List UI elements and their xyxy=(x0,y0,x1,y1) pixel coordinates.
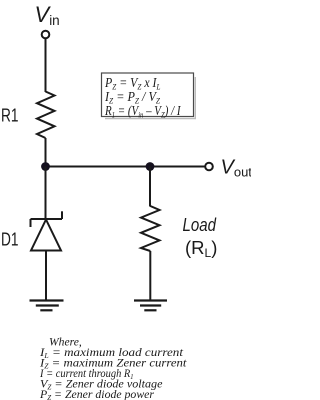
svg-text:R1 = (Vin – VZ) / I: R1 = (Vin – VZ) / I xyxy=(104,103,181,120)
ground left xyxy=(30,301,64,311)
svg-text:(RL): (RL) xyxy=(185,237,217,260)
junction node A xyxy=(41,162,50,171)
formula box xyxy=(102,73,194,117)
wire D1 to ground xyxy=(45,251,47,301)
wire R1 to node A xyxy=(45,138,47,167)
formula box shadow xyxy=(105,77,195,119)
svg-text:PZ = Zener diode power: PZ = Zener diode power xyxy=(39,387,154,400)
wire node A to D1 xyxy=(45,167,47,220)
junction node B xyxy=(146,162,155,171)
ground right xyxy=(134,301,167,311)
terminal Vout xyxy=(205,163,213,171)
resistor R1 xyxy=(37,92,55,139)
resistor Load RL xyxy=(141,206,160,251)
terminal Vin xyxy=(42,31,50,39)
svg-text:R1: R1 xyxy=(1,105,19,126)
wire node B to load xyxy=(149,167,151,207)
wire Vin to R1 xyxy=(45,38,47,92)
wire load to ground xyxy=(149,251,151,300)
svg-text:Load: Load xyxy=(183,214,217,235)
svg-text:D1: D1 xyxy=(1,229,19,250)
wire output bus xyxy=(46,166,206,168)
zener diode D1 xyxy=(31,211,63,250)
